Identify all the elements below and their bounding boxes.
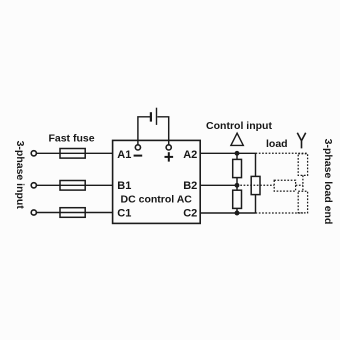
wire delta branch 2 [255, 153, 257, 213]
dashed wire star point [302, 175, 304, 191]
resistor R2 [233, 190, 242, 208]
wye load resistor R5 [274, 180, 295, 191]
node B2 junction [235, 183, 240, 188]
wye symbol [297, 133, 305, 149]
wire battery negative lead [138, 117, 150, 145]
plus sign [165, 152, 174, 161]
wye load resistor R4 [298, 154, 307, 176]
svg-text:DC control AC: DC control AC [121, 193, 193, 205]
svg-text:Control input: Control input [206, 120, 272, 132]
wire F3 to C1 [85, 212, 112, 214]
resistor R3 [251, 176, 260, 194]
terminal L1 [31, 151, 36, 156]
wire F1 to A1 [85, 152, 112, 154]
wire B2 to node [200, 184, 237, 186]
wire L2 to fuse F2 [37, 184, 60, 186]
node C2 junction [235, 211, 240, 216]
dashed wire A2 to wye load [256, 152, 308, 154]
wire L1 to fuse F1 [37, 152, 60, 154]
terminal plus [166, 145, 171, 150]
svg-text:B2: B2 [183, 180, 197, 192]
wire A2 to node [200, 152, 255, 154]
svg-text:C1: C1 [117, 208, 131, 220]
wire F2 to B1 [85, 184, 112, 186]
wire C2 to node [200, 212, 255, 214]
delta symbol [231, 133, 243, 145]
wire delta branch 1 [236, 153, 238, 213]
dashed wire R5 to star point [296, 184, 303, 186]
SSR module U1 [113, 140, 201, 223]
dashed wire B2 to wye load [237, 184, 274, 186]
dashed wire C2 to wye load [256, 212, 303, 214]
terminal L2 [31, 183, 36, 188]
fuse F2 [60, 181, 85, 191]
wire L3 to fuse F3 [37, 212, 60, 214]
battery BT1 [151, 108, 157, 125]
svg-text:C2: C2 [183, 208, 197, 220]
svg-text:Fast fuse: Fast fuse [48, 133, 94, 145]
svg-text:B1: B1 [117, 180, 131, 192]
terminal minus [135, 145, 140, 150]
node A2 junction [235, 151, 240, 156]
resistor R1 [233, 159, 242, 177]
wye load resistor R6 [298, 191, 307, 213]
svg-text:A1: A1 [117, 149, 131, 161]
svg-text:3-phase load end: 3-phase load end [322, 139, 334, 225]
svg-text:3-phase input: 3-phase input [14, 141, 26, 210]
fuse F1 [60, 149, 85, 159]
fuse F3 [60, 208, 85, 218]
svg-text:load: load [266, 138, 288, 150]
minus sign [134, 155, 143, 157]
wire battery positive lead [157, 117, 168, 145]
terminal L3 [31, 210, 36, 215]
svg-text:A2: A2 [183, 149, 197, 161]
